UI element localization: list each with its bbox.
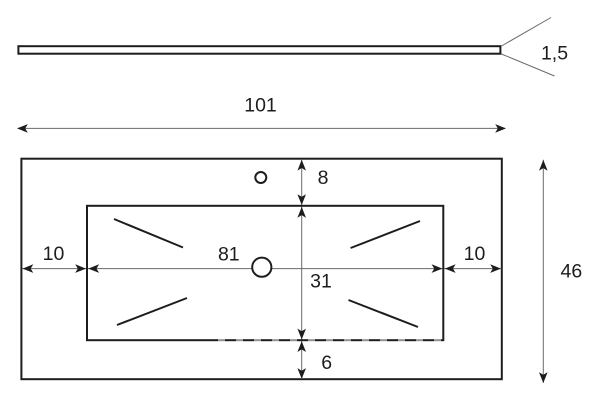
- diagonal top-right: [351, 221, 420, 248]
- arrow 10-left inner: [75, 264, 86, 273]
- leader line lower for 1,5: [502, 54, 555, 76]
- arrow 101 left: [17, 124, 28, 133]
- horizontal dimension line: [22, 268, 501, 270]
- arrow 81 right: [432, 264, 443, 273]
- diagonal top-left: [114, 219, 183, 248]
- arrow 31 bottom: [297, 329, 306, 340]
- faucet hole small circle: [255, 172, 266, 183]
- svg-text:46: 46: [561, 261, 583, 283]
- svg-text:31: 31: [310, 271, 332, 293]
- arrow 10-right inner: [445, 264, 456, 273]
- arrow 101 right: [495, 124, 506, 133]
- arrow 10-left outer: [23, 264, 34, 273]
- arrow 8 bottom: [297, 194, 306, 205]
- outer rectangle (top view): [21, 159, 501, 380]
- dimension line 101: [18, 127, 505, 129]
- diagonal bottom-left: [117, 298, 187, 325]
- side-view slab: [18, 46, 500, 54]
- watermark dashes on inner bottom edge: [218, 339, 443, 342]
- arrow 6 bottom: [297, 368, 306, 379]
- arrow 6 top: [297, 341, 306, 352]
- svg-text:10: 10: [43, 243, 65, 265]
- arrow 8 top: [297, 160, 306, 171]
- arrow 46 top: [539, 160, 548, 171]
- vertical dimension line: [301, 160, 303, 379]
- arrow 46 bottom: [539, 372, 548, 383]
- inner rectangle (basin): [87, 206, 443, 340]
- arrow 10-right outer: [490, 264, 501, 273]
- svg-text:8: 8: [318, 167, 329, 189]
- svg-text:81: 81: [218, 244, 240, 266]
- dimension line 46: [542, 160, 544, 383]
- arrow 31 top: [297, 207, 306, 218]
- svg-text:6: 6: [321, 352, 332, 374]
- svg-text:10: 10: [464, 243, 486, 265]
- leader line upper for 1,5: [502, 18, 552, 47]
- arrow 81 left: [88, 264, 99, 273]
- diagonal bottom-right: [349, 300, 419, 327]
- svg-text:101: 101: [244, 95, 277, 117]
- svg-text:1,5: 1,5: [541, 43, 568, 65]
- drain hole large circle: [252, 258, 271, 277]
